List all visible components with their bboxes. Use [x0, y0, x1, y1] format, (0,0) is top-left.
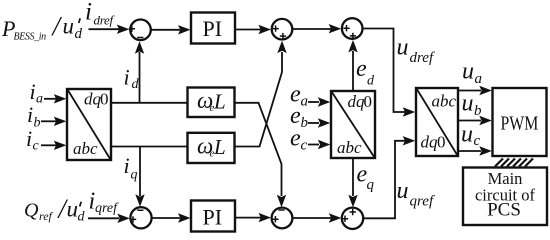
svg-text:abc: abc [432, 92, 457, 111]
svg-text:u: u [63, 14, 75, 39]
svg-text:dref: dref [410, 50, 435, 66]
svg-text:Q: Q [24, 200, 39, 222]
svg-text:a: a [475, 71, 483, 87]
svg-text:BESS_in: BESS_in [14, 32, 47, 43]
svg-text:i: i [27, 102, 33, 127]
svg-text:L: L [213, 90, 226, 114]
svg-text:abc: abc [73, 139, 98, 158]
svg-text:u: u [397, 178, 409, 204]
svg-text:e: e [356, 56, 367, 82]
svg-text:e: e [290, 126, 301, 152]
svg-text:PI: PI [203, 16, 223, 41]
svg-text:0: 0 [364, 92, 373, 111]
svg-text:abc: abc [337, 138, 362, 157]
svg-text:a: a [301, 94, 309, 110]
svg-text:u: u [461, 122, 473, 148]
svg-text:0: 0 [437, 133, 446, 152]
svg-text:q: q [131, 168, 138, 183]
svg-text:d: d [78, 210, 86, 225]
svg-text:ref: ref [39, 209, 54, 223]
svg-text:dref: dref [94, 13, 116, 28]
svg-text:u: u [397, 35, 409, 61]
svg-text:i: i [85, 0, 92, 26]
svg-text:PCS: PCS [487, 200, 521, 221]
svg-text:q: q [367, 177, 375, 193]
svg-text:u: u [67, 197, 79, 222]
svg-text:dq: dq [421, 133, 439, 152]
svg-text:L: L [213, 135, 226, 159]
svg-text:PI: PI [203, 205, 223, 230]
svg-text:qref: qref [95, 201, 119, 216]
svg-text:/: / [51, 11, 63, 41]
svg-text:qref: qref [410, 194, 435, 210]
svg-text:i: i [30, 79, 36, 104]
svg-text:b: b [474, 103, 482, 119]
svg-text:i: i [124, 153, 130, 178]
svg-text:d: d [367, 74, 375, 89]
svg-text:0: 0 [100, 90, 109, 109]
svg-text:c: c [474, 133, 481, 149]
svg-text:a: a [36, 92, 43, 107]
svg-text:i: i [124, 65, 130, 90]
svg-text:b: b [301, 115, 309, 131]
svg-text:b: b [34, 116, 41, 131]
svg-text:u: u [462, 91, 474, 117]
svg-text:dq: dq [348, 92, 366, 111]
svg-text:d: d [75, 26, 83, 42]
svg-text:d: d [132, 77, 140, 92]
svg-text:dq: dq [84, 90, 102, 109]
svg-text:u: u [462, 59, 474, 85]
svg-text:c: c [301, 138, 308, 154]
svg-text:PWM: PWM [501, 112, 539, 134]
svg-text:c: c [33, 139, 40, 154]
svg-text:i: i [26, 126, 32, 151]
